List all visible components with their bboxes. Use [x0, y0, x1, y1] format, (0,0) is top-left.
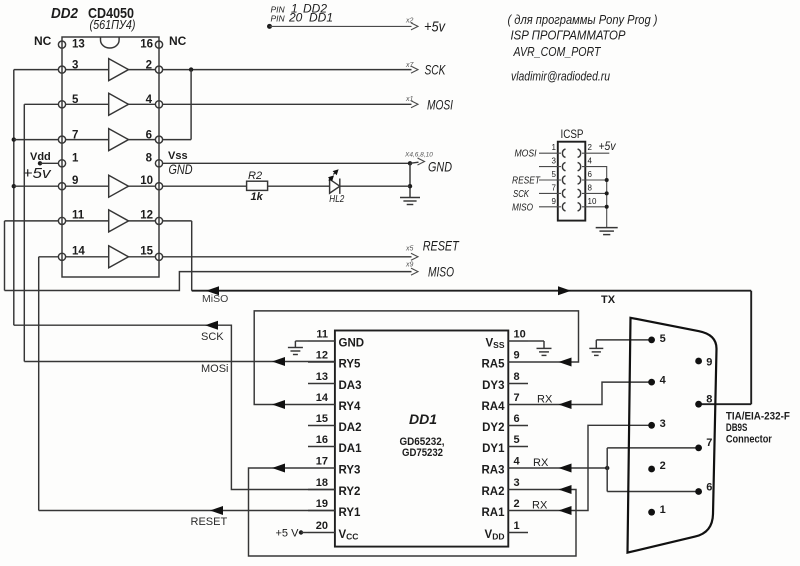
svg-text:R2: R2 [248, 170, 262, 182]
svg-text:9: 9 [706, 357, 712, 369]
svg-text:17: 17 [316, 456, 328, 468]
svg-text:12: 12 [140, 210, 153, 222]
svg-text:MISO: MISO [512, 201, 533, 213]
svg-text:+5v: +5v [23, 165, 53, 182]
svg-text:x9: x9 [405, 262, 414, 269]
svg-text:9: 9 [514, 350, 520, 362]
svg-text:x7: x7 [405, 62, 415, 69]
svg-text:14: 14 [316, 392, 329, 404]
svg-text:11: 11 [316, 329, 328, 341]
svg-text:PIN20DD1: PIN20DD1 [271, 11, 334, 25]
svg-text:13: 13 [316, 371, 328, 383]
svg-text:RY1: RY1 [339, 507, 362, 519]
svg-text:4: 4 [514, 456, 521, 468]
svg-text:6: 6 [514, 413, 520, 425]
svg-text:RY4: RY4 [339, 401, 362, 413]
svg-text:NC: NC [169, 34, 187, 48]
svg-text:RY2: RY2 [339, 486, 361, 498]
svg-text:x2: x2 [405, 18, 414, 25]
svg-text:20: 20 [316, 520, 328, 532]
svg-text:GD75232: GD75232 [402, 447, 443, 459]
svg-text:12: 12 [316, 350, 328, 362]
svg-text:7: 7 [552, 183, 557, 192]
svg-text:18: 18 [316, 477, 328, 489]
svg-text:15: 15 [140, 246, 153, 258]
svg-text:5: 5 [514, 434, 520, 446]
svg-text:DD2: DD2 [51, 5, 79, 22]
svg-text:( для программы Pony Prog ): ( для программы Pony Prog ) [508, 12, 658, 27]
svg-text:8: 8 [706, 393, 712, 405]
svg-text:DA3: DA3 [339, 380, 362, 392]
svg-text:RA3: RA3 [481, 465, 504, 477]
svg-text:GND: GND [339, 338, 365, 350]
svg-text:11: 11 [72, 210, 85, 222]
svg-text:2: 2 [514, 498, 520, 510]
svg-text:DY2: DY2 [482, 422, 504, 434]
svg-text:14: 14 [72, 246, 85, 258]
svg-text:19: 19 [316, 498, 328, 510]
svg-text:1k: 1k [251, 191, 264, 203]
svg-text:2: 2 [660, 460, 666, 472]
svg-text:RY3: RY3 [339, 465, 361, 477]
svg-text:VCC: VCC [339, 529, 359, 542]
svg-text:10: 10 [140, 175, 153, 187]
svg-text:DY3: DY3 [482, 380, 504, 392]
svg-text:RX: RX [537, 394, 553, 406]
svg-text:8: 8 [588, 183, 593, 192]
svg-text:NC: NC [34, 34, 52, 48]
svg-text:X4,6,8,10: X4,6,8,10 [404, 152, 433, 159]
svg-text:3: 3 [660, 418, 666, 430]
svg-text:5: 5 [552, 170, 557, 179]
svg-text:RX: RX [533, 457, 549, 469]
svg-text:GND: GND [169, 162, 193, 177]
svg-text:+5v: +5v [599, 139, 617, 153]
svg-text:MISO: MISO [428, 265, 454, 280]
svg-text:x1: x1 [405, 96, 414, 103]
svg-text:15: 15 [316, 413, 328, 425]
svg-text:SCK: SCK [425, 63, 447, 78]
svg-text:8: 8 [514, 371, 520, 383]
svg-text:13: 13 [72, 39, 85, 51]
svg-text:RESET: RESET [512, 175, 541, 187]
svg-text:2: 2 [588, 143, 593, 152]
svg-text:6: 6 [588, 170, 593, 179]
svg-text:1: 1 [552, 143, 557, 152]
svg-text:ISP ПРОГРАММАТОР: ISP ПРОГРАММАТОР [511, 28, 626, 43]
svg-text:RA1: RA1 [481, 507, 505, 519]
svg-text:SCK: SCK [201, 331, 224, 343]
svg-text:1: 1 [660, 504, 666, 516]
svg-text:8: 8 [146, 153, 153, 165]
svg-text:16: 16 [316, 434, 328, 446]
svg-text:10: 10 [514, 329, 526, 341]
svg-text:Connector: Connector [726, 434, 773, 446]
svg-text:RA4: RA4 [481, 401, 505, 413]
svg-text:SCK: SCK [513, 188, 530, 200]
svg-text:RESET: RESET [191, 516, 228, 528]
svg-text:DD1: DD1 [409, 411, 437, 427]
svg-text:DY1: DY1 [482, 443, 505, 455]
svg-text:MiSO: MiSO [202, 293, 228, 305]
svg-text:HL2: HL2 [329, 194, 344, 205]
svg-text:MOSI: MOSI [515, 148, 537, 160]
svg-text:(561ПУ4): (561ПУ4) [90, 18, 136, 32]
svg-text:+5v: +5v [424, 19, 446, 36]
svg-text:DB9S: DB9S [726, 422, 748, 434]
svg-text:4: 4 [588, 157, 593, 166]
svg-text:VDD: VDD [485, 529, 505, 542]
svg-text:RA5: RA5 [481, 359, 505, 371]
svg-text:RX: RX [532, 500, 548, 512]
svg-text:DA2: DA2 [339, 422, 362, 434]
svg-text:DA1: DA1 [339, 443, 363, 455]
svg-text:GND: GND [428, 159, 452, 175]
svg-text:1: 1 [72, 153, 79, 165]
svg-text:AVR_COM_PORT: AVR_COM_PORT [513, 44, 602, 59]
svg-text:9: 9 [72, 175, 78, 187]
svg-text:1: 1 [514, 520, 520, 532]
svg-text:VSS: VSS [485, 338, 504, 351]
svg-text:RESET: RESET [423, 239, 460, 254]
svg-text:MOSI: MOSI [427, 98, 453, 113]
svg-text:3: 3 [514, 477, 520, 489]
svg-text:3: 3 [552, 157, 557, 166]
svg-text:x5: x5 [405, 246, 414, 253]
svg-text:MOSi: MOSi [201, 363, 229, 375]
svg-text:+5 V: +5 V [276, 528, 300, 540]
svg-text:7: 7 [514, 392, 520, 404]
svg-text:TX: TX [601, 294, 616, 306]
svg-text:vladimir@radioded.ru: vladimir@radioded.ru [511, 69, 610, 84]
svg-text:4: 4 [660, 375, 667, 387]
svg-text:10: 10 [588, 197, 597, 206]
svg-text:ICSP: ICSP [561, 129, 584, 141]
svg-text:5: 5 [660, 333, 666, 345]
svg-text:7: 7 [706, 437, 712, 449]
svg-text:6: 6 [706, 482, 712, 494]
svg-text:RY5: RY5 [339, 359, 362, 371]
svg-text:16: 16 [140, 39, 153, 51]
svg-text:9: 9 [552, 197, 557, 206]
svg-text:Vss: Vss [168, 150, 188, 162]
svg-text:RA2: RA2 [481, 486, 504, 498]
svg-text:TIA/EIA-232-F: TIA/EIA-232-F [726, 410, 790, 422]
